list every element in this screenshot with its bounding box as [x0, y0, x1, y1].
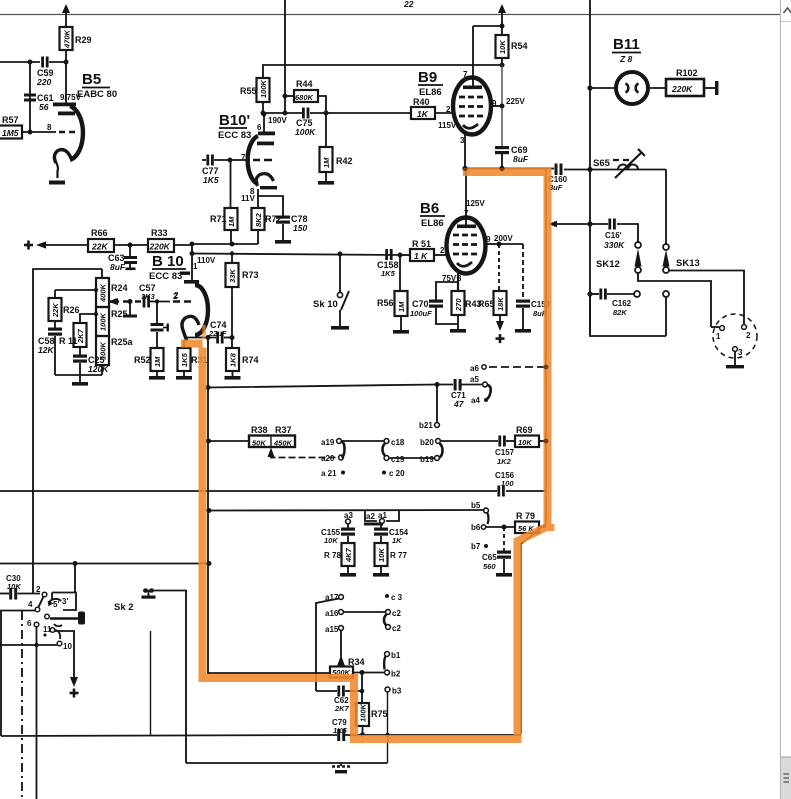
contact c22	[386, 624, 402, 633]
svg-text:110V: 110V	[197, 256, 216, 265]
contact b19	[420, 455, 439, 464]
svg-text:1K5: 1K5	[333, 726, 348, 735]
svg-text:B6: B6	[420, 200, 439, 217]
contact b2	[385, 670, 401, 679]
ground chassis bottom	[332, 763, 350, 773]
svg-text:400K: 400K	[99, 283, 108, 303]
svg-text:c18: c18	[391, 438, 405, 447]
svg-text:R33: R33	[151, 228, 168, 238]
resistor R43	[450, 291, 482, 333]
resistor R25a	[96, 336, 134, 365]
capacitor C75 line y113	[263, 108, 411, 138]
svg-text:ECC 83: ECC 83	[149, 271, 182, 282]
wire: lower return y763	[186, 762, 388, 764]
svg-text:C16': C16'	[605, 231, 622, 240]
wire: network bottom + ground	[55, 365, 102, 386]
svg-text:560: 560	[483, 562, 496, 571]
svg-text:C157: C157	[495, 448, 515, 457]
resistor R31	[176, 340, 208, 380]
svg-text:B11: B11	[613, 36, 640, 53]
svg-text:1K5: 1K5	[381, 269, 396, 278]
svg-text:2: 2	[36, 585, 41, 594]
svg-text:22uF: 22uF	[208, 329, 227, 338]
wire: pin10 line	[0, 644, 57, 646]
svg-text:10K: 10K	[377, 548, 386, 562]
wire: c19 to b19	[389, 457, 434, 459]
resistor R65	[478, 244, 507, 343]
svg-text:10K: 10K	[7, 582, 21, 591]
svg-text:Sk 10: Sk 10	[313, 299, 338, 310]
svg-text:b6: b6	[471, 523, 481, 532]
resistor R42	[318, 113, 353, 185]
svg-text:R38: R38	[251, 425, 268, 435]
svg-text:R44: R44	[296, 79, 313, 89]
resistor R75	[356, 673, 388, 735]
capacitor C77	[202, 155, 250, 186]
wire: bus y563	[0, 563, 209, 565]
wire: cathode to R72/C78	[258, 189, 283, 216]
svg-text:a4: a4	[471, 396, 480, 405]
svg-text:b5: b5	[471, 501, 481, 510]
capacitor C63	[108, 245, 137, 272]
svg-text:R 79: R 79	[516, 511, 535, 521]
svg-text:R65: R65	[478, 299, 495, 309]
svg-text:3': 3'	[62, 597, 68, 606]
svg-text:100K: 100K	[359, 703, 368, 722]
svg-text:1M: 1M	[397, 301, 406, 312]
node: dot 110V	[190, 251, 195, 256]
node: dots bottom bus	[360, 732, 390, 737]
capacitor C74	[208, 320, 227, 344]
capacitor C79	[332, 718, 348, 741]
svg-text:a16: a16	[325, 609, 339, 618]
highlight: orange marker path	[181, 168, 555, 743]
node: crossing dot pin10 line	[34, 643, 38, 647]
svg-text:Sk 2: Sk 2	[114, 602, 134, 613]
svg-text:9/75V: 9/75V	[60, 93, 82, 102]
wire: R55 top feed y65	[263, 65, 502, 78]
svg-text:1M: 1M	[322, 157, 331, 168]
svg-text:S65: S65	[593, 158, 611, 169]
wire: R11 top link	[80, 312, 98, 323]
resistor R57	[0, 115, 30, 139]
svg-text:1K: 1K	[392, 536, 402, 545]
svg-text:22K: 22K	[91, 242, 108, 252]
wire: R26 top link	[55, 288, 98, 298]
svg-text:a19: a19	[321, 438, 335, 447]
switch SK13	[663, 244, 745, 324]
svg-text:R 11: R 11	[59, 336, 78, 346]
svg-text:220K: 220K	[671, 84, 693, 94]
wire: vertical x285 from top	[284, 0, 286, 113]
wire: volume feed vertical x208	[208, 338, 330, 674]
tube B6	[442, 169, 513, 284]
resistor R73	[226, 251, 259, 337]
node: ground stub C57 line	[123, 299, 137, 318]
svg-text:ECC 83: ECC 83	[218, 130, 251, 141]
svg-text:b7: b7	[471, 542, 481, 551]
svg-text:100K: 100K	[259, 79, 268, 98]
node: dots on cathode line	[206, 335, 235, 340]
svg-text:b20: b20	[420, 438, 434, 447]
svg-text:C65: C65	[482, 553, 497, 562]
svg-text:EABC 80: EABC 80	[77, 89, 117, 100]
svg-text:33K: 33K	[228, 269, 237, 283]
svg-text:b19: b19	[420, 455, 434, 464]
svg-text:330K: 330K	[604, 240, 625, 250]
resistor R52	[134, 348, 165, 380]
capacitor C78	[275, 214, 308, 244]
wire: bus y491	[0, 490, 546, 492]
wire: R54 rail with arrow	[498, 4, 506, 35]
svg-text:R40: R40	[413, 97, 430, 107]
switch S65	[593, 149, 645, 178]
node: dot Sk2 feed	[73, 561, 78, 566]
capacitor C162	[590, 289, 634, 318]
node: dot C63 tap	[128, 243, 133, 248]
svg-text:8uF: 8uF	[110, 262, 126, 272]
resistor R51	[400, 239, 448, 261]
capacitor C157	[495, 436, 515, 467]
bracket a19-a20	[341, 441, 345, 458]
wire: R66 input line with + arrow	[24, 241, 88, 250]
svg-text:1M: 1M	[153, 356, 162, 367]
svg-text:2: 2	[746, 331, 751, 340]
node: dots on x208	[206, 439, 212, 567]
svg-text:C70: C70	[412, 299, 429, 309]
wire: B9 plate top link y26	[473, 24, 505, 29]
wire: main vertical x590	[589, 0, 591, 336]
svg-text:2: 2	[440, 246, 445, 255]
svg-text:b3: b3	[392, 687, 402, 696]
wire: x502 down to C69	[501, 65, 503, 146]
wire: vertical x37	[36, 627, 38, 799]
wire: plate stem B10 lower	[191, 244, 193, 280]
svg-text:EL86: EL86	[421, 218, 444, 229]
resistor R34	[330, 655, 385, 678]
svg-text:10K: 10K	[518, 438, 532, 447]
svg-text:1M: 1M	[227, 216, 236, 227]
svg-text:R66: R66	[91, 228, 108, 238]
svg-text:c19: c19	[391, 455, 405, 464]
capacitor to R52 top	[151, 299, 169, 348]
svg-text:b1: b1	[391, 651, 401, 660]
svg-text:a2: a2	[366, 512, 375, 521]
svg-text:8uF: 8uF	[513, 154, 529, 164]
svg-text:a5: a5	[470, 375, 479, 384]
svg-text:R52: R52	[134, 355, 151, 365]
capacitor C61	[24, 93, 54, 112]
svg-text:11V: 11V	[241, 194, 255, 203]
contact b1	[384, 651, 401, 670]
svg-text:1K5: 1K5	[180, 352, 189, 367]
resistor R79	[515, 511, 546, 533]
node: dot R57 line	[28, 130, 33, 135]
resistor R40	[411, 97, 453, 119]
connector plug circle	[711, 314, 757, 368]
contact SK13 lower	[663, 291, 669, 336]
wire: left dashed vertical x22	[21, 611, 23, 799]
capacitor C155	[321, 528, 355, 546]
resistor R44	[283, 79, 327, 113]
contact a5 and a4 bracket	[470, 375, 491, 405]
svg-text:5': 5'	[53, 600, 59, 609]
svg-text:4: 4	[28, 600, 33, 609]
contact c18	[384, 438, 405, 447]
lamp B11	[590, 72, 666, 104]
svg-text:22K: 22K	[51, 303, 60, 318]
node: dots visible over highlight	[462, 166, 548, 444]
resistor R66	[88, 228, 148, 252]
capacitor C70	[410, 299, 443, 318]
node: dot R34 out	[360, 670, 365, 675]
wire: vertical x150	[150, 631, 152, 736]
svg-text:R26: R26	[63, 305, 80, 315]
svg-text:B5: B5	[82, 71, 101, 88]
wire: y244 node line R33 to R71/R72	[192, 243, 258, 245]
node: dot y224	[587, 221, 592, 226]
junction tap symbol	[142, 588, 156, 599]
wire: b21 riser	[419, 385, 439, 431]
svg-text:a6: a6	[470, 364, 479, 373]
wire: C16 line y224	[548, 221, 638, 243]
svg-text:B 10: B 10	[152, 253, 184, 270]
svg-text:115V: 115V	[438, 121, 457, 130]
svg-text:Z 8: Z 8	[619, 54, 633, 64]
wire: B+ rail top-left with arrow	[62, 4, 70, 27]
svg-text:150: 150	[293, 223, 307, 233]
tube B9 label	[418, 69, 443, 98]
node: dot C162	[587, 291, 592, 296]
contact a20	[321, 454, 343, 463]
svg-text:100K: 100K	[99, 312, 108, 331]
capacitor C160	[548, 164, 568, 193]
svg-text:125V: 125V	[466, 199, 485, 208]
svg-text:56: 56	[39, 102, 49, 112]
wire: B6 cathode network	[436, 273, 458, 324]
node: dot R51/R56	[398, 253, 403, 258]
tube B10 upper triode	[241, 112, 287, 204]
tube B10 upper label	[218, 112, 251, 141]
resistor R29	[60, 27, 92, 62]
contact b20	[420, 438, 440, 447]
svg-text:2: 2	[174, 291, 179, 300]
svg-text:1M5: 1M5	[2, 128, 19, 138]
tube B10 lower triode	[173, 262, 208, 341]
resistor R33	[148, 228, 192, 252]
svg-text:18K: 18K	[496, 297, 505, 311]
resistor R102	[666, 68, 718, 96]
capacitor C69	[495, 145, 529, 168]
capacitor C159	[499, 244, 551, 333]
svg-text:1K5: 1K5	[203, 175, 219, 185]
resistor R11	[59, 323, 87, 347]
wire: return loop y336	[590, 294, 666, 336]
node: dot y65	[500, 63, 505, 68]
bracket c21-c22	[384, 615, 387, 626]
svg-text:3K3: 3K3	[141, 292, 156, 301]
tube B6 label	[420, 200, 445, 229]
capacitor C154	[374, 528, 409, 546]
switch Sk10	[313, 252, 349, 330]
svg-text:680K: 680K	[295, 93, 314, 102]
svg-text:220: 220	[36, 77, 51, 87]
svg-text:c 3: c 3	[391, 593, 403, 602]
svg-text:b2: b2	[391, 670, 401, 679]
resistor R55	[240, 78, 270, 113]
capacitor C30	[0, 574, 40, 600]
svg-text:4K7: 4K7	[344, 547, 353, 563]
svg-text:1: 1	[193, 262, 198, 271]
svg-text:10: 10	[63, 642, 72, 651]
svg-text:R24: R24	[111, 283, 128, 293]
wire: b-row feed y510	[209, 509, 483, 512]
node: dots y169	[462, 166, 592, 172]
svg-text:100K: 100K	[295, 127, 316, 137]
wire: a19 to c18	[342, 440, 385, 442]
contact b7	[471, 542, 488, 551]
scrollbar	[781, 0, 791, 799]
contact b5	[471, 501, 489, 524]
svg-text:B10': B10'	[219, 112, 250, 129]
svg-text:50K: 50K	[252, 439, 266, 448]
capacitor C16'	[604, 219, 625, 251]
tube B5	[30, 62, 83, 185]
contact c3	[385, 593, 403, 602]
svg-text:SK13: SK13	[676, 258, 700, 269]
contact b6	[471, 523, 515, 532]
svg-text:R 77: R 77	[390, 551, 407, 560]
svg-text:R102: R102	[676, 68, 698, 78]
wire: horizontal y62	[0, 61, 66, 63]
resistor R78	[324, 543, 356, 577]
lamp B11 label	[612, 36, 641, 64]
wire: cathode line to C74	[186, 337, 232, 339]
wire: Sk2 to right elbow	[143, 591, 186, 764]
resistor R71	[210, 160, 238, 244]
svg-text:R55: R55	[240, 86, 257, 96]
svg-text:R29: R29	[75, 35, 92, 45]
contact box a2 a1	[364, 511, 399, 529]
potentiometer R38 R37	[209, 425, 296, 448]
svg-text:a20: a20	[321, 454, 335, 463]
tube B9	[438, 26, 525, 168]
svg-text:220K: 220K	[149, 242, 171, 252]
bracket b19-b20	[440, 444, 443, 458]
svg-text:B9: B9	[418, 69, 437, 86]
wire: a6 dashed link	[470, 364, 549, 373]
contact a19	[321, 438, 341, 447]
tube B5 label	[77, 71, 117, 100]
capacitor C65	[482, 527, 512, 577]
bracket c18-c19	[383, 444, 386, 456]
node: junction dots y62	[28, 60, 69, 65]
svg-text:R 78: R 78	[324, 551, 341, 560]
resistor R24	[96, 278, 128, 307]
svg-text:C162: C162	[612, 299, 632, 308]
wire: Sk2 feed vertical	[74, 564, 76, 594]
svg-text:470K: 470K	[63, 29, 72, 49]
svg-text:22: 22	[403, 0, 414, 9]
resistor R74	[225, 338, 259, 380]
contact c21	[386, 609, 402, 618]
svg-text:47: 47	[453, 399, 465, 409]
svg-text:8K2: 8K2	[254, 212, 263, 227]
svg-text:1: 1	[716, 332, 721, 341]
svg-text:1K: 1K	[417, 109, 429, 119]
svg-text:R42: R42	[336, 156, 353, 166]
svg-text:10K: 10K	[324, 536, 338, 545]
resistor R56	[377, 255, 409, 334]
svg-text:100uF: 100uF	[410, 309, 432, 318]
page number 22	[403, 0, 414, 9]
wire: bottom bus with C79	[1, 735, 521, 736]
svg-text:R69: R69	[516, 425, 533, 435]
svg-text:b21: b21	[419, 421, 433, 430]
wire: hidden main path under highlight	[521, 169, 546, 735]
capacitor C158	[377, 249, 399, 278]
wiper R37 to a20	[268, 448, 339, 458]
svg-text:100: 100	[501, 479, 514, 488]
resistor R69	[515, 425, 549, 447]
node: dots y384	[206, 382, 440, 390]
svg-text:82K: 82K	[613, 308, 627, 317]
svg-text:R75: R75	[371, 709, 388, 719]
svg-text:1 K: 1 K	[414, 251, 428, 261]
svg-text:R57: R57	[2, 115, 19, 125]
svg-text:R54: R54	[511, 41, 528, 51]
svg-text:SK12: SK12	[596, 259, 620, 270]
page top edge line	[0, 14, 780, 16]
svg-text:R34: R34	[348, 657, 365, 667]
wire: S65 to SK13	[665, 170, 667, 245]
contact SK12 lower	[634, 291, 640, 297]
node: dots y113	[261, 111, 329, 116]
svg-text:1K2: 1K2	[497, 457, 512, 466]
tube B10 label (lower)	[149, 253, 190, 282]
svg-text:1K8: 1K8	[229, 352, 238, 367]
svg-text:9: 9	[486, 235, 491, 244]
svg-text:R37: R37	[275, 425, 292, 435]
contact a21 c20	[320, 463, 322, 480]
svg-text:c2: c2	[392, 609, 401, 618]
wire: C71 line y384	[208, 385, 482, 388]
svg-text:a15: a15	[325, 625, 339, 634]
resistor R25	[96, 307, 128, 336]
svg-text:c 20: c 20	[389, 469, 405, 478]
svg-text:R25: R25	[111, 309, 128, 319]
contact a16	[325, 609, 385, 618]
capacitor C62	[316, 686, 362, 714]
svg-text:190V: 190V	[268, 116, 287, 125]
svg-text:c2: c2	[392, 624, 401, 633]
wiper arrow into R24/R25	[109, 298, 118, 305]
resistor R77	[373, 543, 407, 577]
svg-text:R 51: R 51	[412, 239, 431, 249]
svg-text:2K7: 2K7	[334, 704, 350, 713]
wire: network top loop	[33, 269, 102, 593]
wire: 110V line	[192, 254, 400, 266]
svg-text:12K: 12K	[38, 345, 54, 355]
wire: output node line y169	[465, 169, 666, 170]
svg-text:R25a: R25a	[111, 337, 134, 347]
capacitor C25	[73, 347, 109, 375]
wire: vertical x30	[29, 62, 31, 132]
capacitor C58	[38, 321, 62, 375]
capacitor C59	[36, 57, 54, 88]
svg-text:6: 6	[257, 123, 262, 132]
svg-text:8: 8	[47, 123, 52, 132]
